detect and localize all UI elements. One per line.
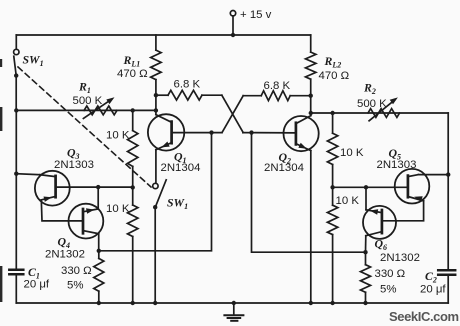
node R2/10K <box>330 111 334 115</box>
wire left rail upper <box>15 76 17 111</box>
wire Q2 emitter down <box>310 151 312 303</box>
svg-text:330 Ω: 330 Ω <box>375 268 406 280</box>
transistor Q1 <box>148 110 222 150</box>
wire Q1 emitter down <box>155 150 157 183</box>
node 10KL ground <box>131 301 135 305</box>
capacitor C2 <box>438 270 455 275</box>
label R1 value <box>73 95 103 107</box>
svg-text:2N1304: 2N1304 <box>161 162 201 174</box>
label C2 value <box>420 283 446 295</box>
wire R1 row <box>16 109 156 111</box>
label RL1 value <box>117 68 148 80</box>
wire top +15V rail <box>16 34 310 36</box>
node Q2 base <box>249 130 253 134</box>
watermark SeekIC.com <box>389 309 459 324</box>
label SW1 A <box>23 53 44 69</box>
label Q1 <box>174 150 187 166</box>
svg-text:6.8 K: 6.8 K <box>264 80 291 92</box>
node Q6 collector / 330 <box>363 250 367 254</box>
wire right rail bottom <box>447 275 449 303</box>
wire Q5 base row <box>333 186 408 188</box>
svg-text:10 K: 10 K <box>106 129 130 141</box>
svg-text:5%: 5% <box>380 283 396 295</box>
wire Q3 base row <box>56 186 133 188</box>
label 330 left tol <box>67 279 83 291</box>
node Q1 base <box>209 130 213 134</box>
label +15v <box>240 9 272 21</box>
wire Q6 collector down <box>365 236 367 253</box>
label RL2 <box>324 54 342 70</box>
label Q6 <box>375 237 388 253</box>
node 330R ground <box>363 301 367 305</box>
wire Q5 emitter to Q6 base <box>382 201 424 221</box>
svg-text:6.8 K: 6.8 K <box>174 79 201 91</box>
svg-text:470 Ω: 470 Ω <box>117 68 148 80</box>
wire Q4 emitter up <box>97 187 99 209</box>
node left rail / R1 <box>14 108 18 112</box>
svg-text:20 μf: 20 μf <box>420 283 446 295</box>
transistor Q2 <box>243 113 319 151</box>
node Q6 emitter / Q5 base <box>364 185 368 189</box>
wire bottom ground rail <box>16 302 448 304</box>
label R2 <box>363 81 376 97</box>
resistor 10K upper-right <box>327 113 337 187</box>
label R2 value <box>357 98 387 110</box>
transistor Q3 <box>35 171 70 206</box>
svg-text:330 Ω: 330 Ω <box>61 265 92 277</box>
label 330 left <box>61 265 92 277</box>
node R1/10K <box>131 108 135 112</box>
label C1 value <box>24 279 50 291</box>
label 6.8K right <box>264 80 291 92</box>
transistor Q4 <box>69 204 104 239</box>
ground <box>224 301 243 321</box>
label R1 <box>78 80 91 96</box>
dashed linkage SW1 <box>18 67 151 187</box>
wire cross right-to-Q1base <box>222 96 243 133</box>
node Q2 collector <box>309 111 313 115</box>
switch SW1 section A <box>14 49 19 78</box>
node Q4 emitter / Q3 base <box>96 185 100 189</box>
resistor 6.8K right <box>243 91 311 101</box>
label Q2 type <box>264 162 304 174</box>
resistor RL2 <box>306 35 316 96</box>
power terminal +15v <box>230 11 235 38</box>
resistor 10K lower-right <box>327 187 337 303</box>
wire RL1 node down <box>155 95 157 110</box>
node RL2/6.8K <box>309 94 313 98</box>
label 10K upper-right <box>340 147 364 159</box>
wire Q1 base down <box>99 133 212 251</box>
resistor 6.8K left <box>156 90 222 100</box>
label 6.8K left <box>174 79 201 91</box>
resistor RL1 <box>151 35 161 95</box>
svg-text:470 Ω: 470 Ω <box>319 70 350 82</box>
label 10K lower-right <box>336 195 360 207</box>
wire Q6 emitter up <box>365 187 367 210</box>
node Q2 emitter ground <box>309 301 313 305</box>
svg-text:2N1303: 2N1303 <box>54 159 94 171</box>
resistor 330 left <box>94 251 104 303</box>
label Q2 <box>279 150 292 166</box>
node Q4 collector / 330 <box>97 249 101 253</box>
svg-text:2N1302: 2N1302 <box>380 252 420 264</box>
node Q3 base row / 10K <box>131 185 135 189</box>
wire RL2 node down <box>310 96 312 113</box>
label C2 <box>425 269 437 285</box>
transistor Q6 <box>363 206 396 239</box>
svg-text:+ 15 v: + 15 v <box>240 9 272 21</box>
svg-text:2N1302: 2N1302 <box>45 248 85 260</box>
node SW1B ground <box>153 301 157 305</box>
wire left rail top <box>15 35 17 49</box>
label Q5 <box>389 146 402 162</box>
node RL1/6.8K <box>154 93 158 97</box>
wire SW1B down <box>154 207 156 303</box>
node 330L ground <box>97 301 101 305</box>
label Q4 <box>58 235 71 251</box>
node Q5 base row / 10K <box>330 185 334 189</box>
label RL2 value <box>319 70 350 82</box>
wire Q5 collector <box>418 174 448 176</box>
potentiometer R1 <box>83 97 117 118</box>
svg-text:10 K: 10 K <box>106 203 130 215</box>
wire left rail bottom <box>15 274 17 303</box>
edge artifact marks <box>0 59 2 302</box>
resistor 330 right <box>361 252 371 303</box>
label RL1 <box>123 53 141 69</box>
wire R2 row <box>311 112 448 114</box>
label SW1 B <box>167 196 188 212</box>
capacitor C1 <box>9 270 23 275</box>
resistor 10K upper-left <box>128 110 138 187</box>
node 10KR ground <box>330 301 334 305</box>
svg-text:SeekIC.com: SeekIC.com <box>389 309 459 324</box>
label 330 right <box>375 268 406 280</box>
wire cross left-to-Q2base <box>222 95 243 132</box>
label C1 <box>28 265 40 281</box>
svg-text:5%: 5% <box>67 279 83 291</box>
svg-text:2N1303: 2N1303 <box>377 159 417 171</box>
label Q4 type <box>45 248 85 260</box>
svg-text:10 K: 10 K <box>336 195 360 207</box>
potentiometer R2 <box>368 97 400 120</box>
label Q3 <box>67 146 80 162</box>
label 10K lower-left <box>106 203 130 215</box>
label 330 right tol <box>380 283 396 295</box>
wire Q4 collector down <box>98 234 100 251</box>
svg-text:2N1304: 2N1304 <box>264 162 304 174</box>
node left rail / Q3 collector <box>14 172 18 176</box>
svg-text:20 μf: 20 μf <box>24 279 50 291</box>
label Q5 type <box>377 159 417 171</box>
label 10K upper-left <box>106 129 130 141</box>
switch SW1 section B <box>153 180 167 210</box>
svg-text:500 K: 500 K <box>357 98 387 110</box>
label Q3 type <box>54 159 94 171</box>
label Q1 type <box>161 162 201 174</box>
transistor Q5 <box>395 169 430 204</box>
wire Q2 base down <box>252 133 366 253</box>
label Q6 type <box>380 252 420 264</box>
svg-text:10 K: 10 K <box>340 147 364 159</box>
node right rail / Q5 collector <box>446 172 450 176</box>
wire left rail mid <box>15 110 17 269</box>
wire right rail <box>447 113 449 270</box>
node R1/RL1/Q1 <box>154 108 158 112</box>
wire Q3 emitter to Q4 base <box>41 200 83 221</box>
svg-text:500 K: 500 K <box>73 95 103 107</box>
resistor 10K lower-left <box>128 187 138 303</box>
wire Q3 collector <box>16 174 40 175</box>
